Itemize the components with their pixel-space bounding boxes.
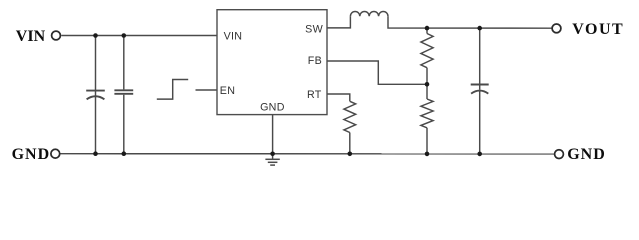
op-amp U1 IC body <box>217 10 327 115</box>
terminal VIN <box>52 31 61 40</box>
resistor R2 <box>421 99 433 128</box>
svg-text:VOUT: VOUT <box>572 21 624 38</box>
node FB <box>425 82 430 87</box>
svg-text:GND: GND <box>12 146 51 163</box>
node GND-C2 <box>122 151 127 156</box>
node GND-C1 <box>93 151 98 156</box>
svg-text:GND: GND <box>260 102 285 114</box>
capacitor C1 plate <box>86 90 105 92</box>
svg-text:VIN: VIN <box>224 30 243 42</box>
wire VIN rail <box>61 35 217 37</box>
capacitor C2 plate bottom <box>114 93 133 95</box>
capacitor C1 lead bottom <box>95 91 97 154</box>
wire EN stub <box>196 89 218 91</box>
capacitor C2 lead bottom <box>123 95 125 154</box>
wire R2 to GND <box>426 128 428 154</box>
node VOUT-R1 <box>425 26 430 31</box>
node VIN-C1 <box>93 33 98 38</box>
node GND-C3 <box>477 152 482 157</box>
node GND-R2 <box>425 152 430 157</box>
wire inductor to VOUT <box>388 16 552 28</box>
svg-text:SW: SW <box>305 23 323 35</box>
svg-text:EN: EN <box>220 85 235 97</box>
node GND-R3 <box>348 152 353 157</box>
terminal GND right <box>555 150 564 159</box>
wire RT stub <box>327 94 350 101</box>
capacitor C3 lead bottom <box>479 90 481 154</box>
svg-text:FB: FB <box>308 55 322 67</box>
terminal circles <box>51 24 563 159</box>
svg-text:RT: RT <box>307 89 322 101</box>
node GND-IC <box>270 152 275 157</box>
wire R1 stub <box>426 28 428 34</box>
svg-text:GND: GND <box>567 146 606 163</box>
svg-text:VIN: VIN <box>16 28 46 45</box>
capacitor C3 curved plate <box>471 91 488 94</box>
inductor L1 <box>350 11 388 16</box>
capacitor C3 lead top <box>479 28 481 89</box>
IC GND pin wire <box>272 115 274 160</box>
resistor R1 <box>421 34 433 68</box>
node VIN-C2 <box>122 33 127 38</box>
capacitor C2 lead top <box>123 36 125 90</box>
capacitor C3 plate <box>471 84 489 86</box>
node VOUT-C3 <box>477 26 482 31</box>
resistor R3 <box>344 101 356 132</box>
terminal GND left <box>51 149 60 158</box>
wire R2 stub <box>426 84 428 99</box>
ground symbol <box>265 159 279 165</box>
step waveform EN <box>157 80 188 100</box>
capacitor C2 plate top <box>114 89 133 91</box>
wire SW stub <box>327 16 350 28</box>
wire R1 to FB node <box>426 68 428 85</box>
wire FB net <box>327 61 427 84</box>
wire GND rail <box>60 153 554 155</box>
terminal VOUT <box>552 24 561 33</box>
capacitor C1 lead top <box>95 36 97 91</box>
wire R3 to GND <box>349 133 351 154</box>
capacitor C1 curved plate <box>87 96 105 99</box>
